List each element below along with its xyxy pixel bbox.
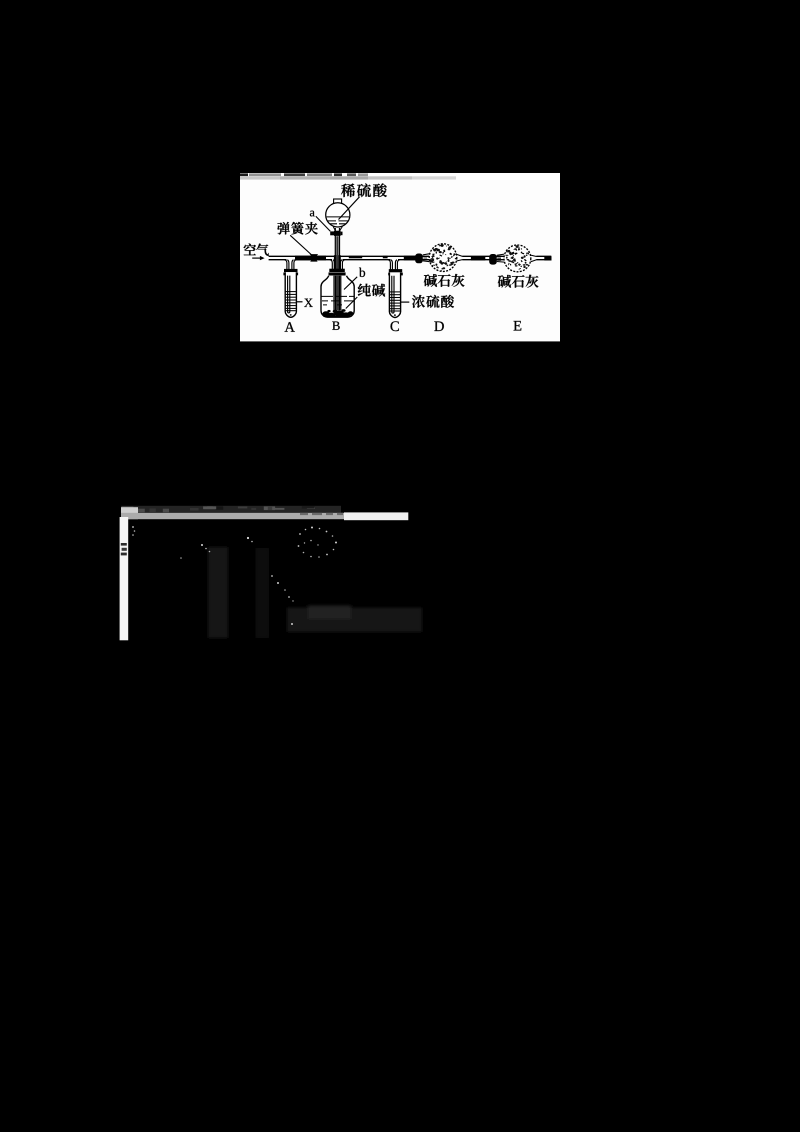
letter B <box>332 322 339 330</box>
smudged text row <box>121 506 341 513</box>
label a <box>310 211 315 217</box>
label 稀硫酸 (dilute sulfuric acid) <box>341 183 387 197</box>
letter D <box>434 321 444 331</box>
pointer line to funnel <box>339 197 360 220</box>
test tube A body <box>285 272 296 317</box>
label X <box>297 301 303 303</box>
tube C hatching <box>390 292 400 311</box>
test tube C stopper <box>389 269 402 272</box>
label line to 浓硫酸 <box>401 301 410 303</box>
drying bulb E <box>504 245 531 272</box>
light gray band <box>121 507 138 519</box>
label 弹簧夹 (spring clamp) <box>277 222 317 235</box>
white specks <box>132 526 337 625</box>
pointer line to residue <box>346 297 358 309</box>
test tube C body <box>389 273 400 318</box>
figure 1: white scanned panel <box>240 173 560 341</box>
label 纯碱 (soda ash) <box>358 284 385 297</box>
bulb D left connector <box>415 254 423 264</box>
junction bends into vessels A, B, C <box>285 260 400 270</box>
funnel stem bundle through tube into B <box>334 255 341 269</box>
bottle B stopper <box>329 269 345 272</box>
rubber tubing black segments <box>295 256 326 261</box>
label 空气 (air) <box>244 244 269 256</box>
spring clamp bowtie on tube <box>310 254 318 257</box>
dark mark on strip <box>121 543 127 555</box>
bulb E necks <box>497 254 537 262</box>
label 浓硫酸 (conc. sulfuric acid) <box>412 295 454 308</box>
scan smudge along panel top <box>240 173 456 179</box>
bottle B dip tube bundle <box>334 276 341 311</box>
faint gray bars <box>208 547 422 638</box>
letter C <box>391 321 399 331</box>
bottle B liquid dashes <box>322 296 355 305</box>
tube C inner dip tube <box>392 276 394 313</box>
main horizontal glass tube <box>269 256 552 259</box>
tube A contents hatching <box>286 292 296 311</box>
label 碱石灰 under D (soda lime) <box>424 274 465 287</box>
dropping funnel: top opening <box>334 199 342 204</box>
label b <box>344 277 357 290</box>
stopcock a (black) <box>334 231 341 236</box>
bright white band segment <box>344 512 408 520</box>
bottle B solid residue <box>323 309 354 317</box>
letter A <box>285 322 295 332</box>
dropping funnel: bulb <box>326 203 350 227</box>
bulb E connector <box>489 254 497 265</box>
bottle B body <box>321 276 354 317</box>
test tube A stopper <box>284 269 298 272</box>
letter E <box>514 321 522 331</box>
label 碱石灰 under E (soda lime) <box>498 275 539 288</box>
tube A inner dip tube <box>288 276 290 313</box>
funnel liquid lines <box>327 217 349 224</box>
drying bulb D <box>429 244 457 272</box>
air arrow <box>252 257 260 259</box>
bulb D necks <box>423 254 463 262</box>
pointer line a to stopcock <box>316 216 331 231</box>
pointer line to clamp <box>290 235 311 254</box>
funnel stem <box>334 228 336 269</box>
white vertical strip <box>120 517 129 640</box>
